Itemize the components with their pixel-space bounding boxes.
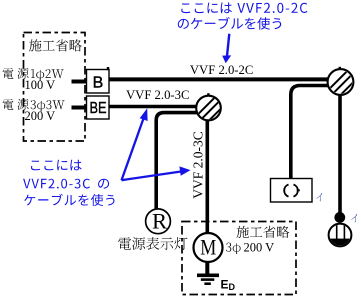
wire from right junction box down to luminaire [338,93,342,213]
svg-text:200 V: 200 V [244,241,275,255]
bottom construction-omitted box (dash-dot) [182,222,296,295]
label 電源3φ3W [3,99,14,110]
outlet box [271,179,313,203]
breaker B box [87,70,110,94]
annotation arrow to VVF2.0-2C wire [222,34,231,64]
svg-text:200 V: 200 V [25,109,56,123]
breaker BE box [87,96,110,119]
lamp R circle [146,209,171,234]
annotation line3 ケーブルを使う [24,194,114,206]
main wire VVF2.0-2C from B to right junction box [109,77,329,81]
luminaire label イ [351,214,357,222]
right junction box (hatched circle) [320,57,361,107]
annotation arrow to vertical VVF2.0-3C wire [122,166,191,180]
wire from left junction box down to lamp R (rounded corner) [156,113,198,209]
label 3φ200V [226,243,241,255]
right junction box top tick [339,67,341,70]
luminaire circle [328,222,352,248]
left junction box (hatched circle) [188,83,238,133]
wire from BE to left junction box [109,105,197,109]
motor M circle [194,233,223,262]
svg-text:BE: BE [89,100,106,118]
svg-text:100 V: 100 V [25,78,56,92]
label 電源1φ2W [3,68,14,79]
annotation: bottom blue note line1 ここには [31,160,82,171]
svg-text:VVF 2.0-2C: VVF 2.0-2C [190,63,253,77]
svg-text:VVF 2.0-3C: VVF 2.0-3C [191,131,206,199]
svg-text:VVF 2.0-3C: VVF 2.0-3C [126,88,189,102]
wire from left junction box down to motor M [206,118,210,233]
wire from right junction box down to outlet (rounded corner) [291,86,328,180]
label 施工省略 (top-left) [29,39,82,51]
outlet () symbol [284,185,300,197]
left junction box top tick [207,93,209,96]
ceiling rose dot [334,212,345,223]
annotation line2 VVF2.0-3C の [23,179,90,189]
annotation: top blue note line 1 [181,3,232,14]
label 施工省略 (bottom) [236,226,289,238]
wire stub from source to breaker BE [72,106,89,110]
wire stub from source to breaker B [72,80,89,84]
svg-text:M: M [200,236,216,260]
ground symbol ED [197,262,219,285]
construction-omitted source box (dash-dot) [24,33,86,142]
svg-text:R: R [152,209,168,234]
annotation: top blue note line 2 [178,17,281,30]
outlet label イ [316,193,322,201]
annotation arrow to VVF2.0-3C horizontal wire [122,108,148,180]
label 電源表示灯 [118,237,187,250]
svg-text:B: B [93,74,104,91]
